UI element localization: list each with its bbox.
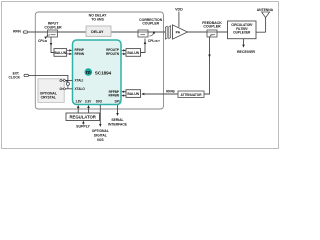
svg-text:COUPLER: COUPLER: [203, 25, 221, 29]
svg-text:RECEIVER: RECEIVER: [237, 50, 255, 54]
op-amp U1 SC1894 chip: [73, 40, 122, 105]
svg-text:XTALO: XTALO: [75, 87, 86, 91]
svg-text:m: m: [86, 70, 91, 76]
wire XTALI: [60, 80, 73, 82]
svg-text:RFFB: RFFB: [166, 90, 175, 94]
svg-text:RFINN: RFINN: [75, 52, 85, 56]
svg-text:SPI: SPI: [115, 99, 120, 103]
svg-text:ANTENNA: ANTENNA: [257, 8, 274, 12]
svg-text:RFFBN: RFFBN: [108, 94, 119, 98]
svg-text:DI/O: DI/O: [96, 99, 103, 103]
circulator/filter/duplexer: [228, 21, 257, 39]
wire XTALO: [60, 88, 73, 90]
wire SPI down: [117, 105, 119, 114]
wire fb balun to chip RFFB pins: [124, 92, 126, 96]
svg-text:ATTENUATOR: ATTENUATOR: [181, 93, 203, 97]
svg-text:PA: PA: [176, 31, 181, 35]
svg-text:DUPLEXER: DUPLEXER: [233, 30, 251, 34]
wire correction injection up from balun: [141, 39, 146, 53]
svg-text:CLOCK: CLOCK: [9, 75, 21, 79]
svg-text:OPTIONAL: OPTIONAL: [92, 129, 109, 133]
delay block: [86, 14, 111, 37]
balun input: [54, 49, 67, 57]
wire feedback tap down: [204, 37, 210, 94]
regulator: [66, 113, 100, 121]
svg-text:CRYSTAL: CRYSTAL: [41, 95, 56, 99]
svg-text:CPLIN: CPLIN: [38, 39, 47, 43]
outer frame: [2, 2, 279, 149]
wire balun to chip RFIN pins: [67, 50, 70, 54]
crystal optional box: [38, 79, 64, 103]
wire chip RFOUT pins to balun: [121, 50, 123, 54]
wire supply into regulator: [82, 122, 84, 125]
input coupler: [44, 22, 62, 40]
balun output: [126, 49, 141, 57]
svg-text:COUPLER: COUPLER: [44, 25, 62, 29]
svg-text:SUPPLY: SUPPLY: [76, 125, 90, 129]
wire DI/O down: [99, 105, 101, 125]
svg-text:RFIN: RFIN: [13, 30, 21, 34]
svg-text:DELAY: DELAY: [91, 30, 104, 34]
svg-text:INTERFACE: INTERFACE: [108, 122, 128, 126]
balun feedback: [126, 90, 141, 98]
svg-text:TO 6NS: TO 6NS: [91, 17, 104, 21]
svg-text:RFOUTN: RFOUTN: [106, 52, 120, 56]
node crystal terminals: [60, 80, 62, 82]
correction coupler: [138, 18, 163, 37]
connector EXT CLOCK plug: [24, 74, 29, 76]
svg-text:SERIAL: SERIAL: [111, 118, 123, 122]
feedback coupler: [202, 21, 222, 37]
system box: [35, 12, 163, 109]
svg-text:XTALI: XTALI: [75, 79, 84, 83]
connector RFIN plug: [23, 31, 28, 33]
svg-text:REGULATOR: REGULATOR: [70, 115, 97, 120]
svg-text:DIGITAL: DIGITAL: [94, 134, 107, 138]
wire ext clock to XTALI: [29, 75, 68, 80]
attenuator: [178, 91, 204, 97]
svg-text:3.3V: 3.3V: [85, 99, 92, 103]
svg-text:I/OS: I/OS: [97, 138, 104, 142]
wire 1.8V supply: [77, 107, 79, 114]
svg-text:BALUN: BALUN: [127, 92, 139, 96]
wire main RF line: [28, 31, 266, 33]
antenna: [257, 8, 274, 32]
wire attenuator to fb balun: [142, 93, 178, 95]
transistor PA (multi-stage amplifier): [165, 25, 187, 39]
svg-text:VDD: VDD: [175, 7, 183, 11]
svg-text:SC1894: SC1894: [95, 70, 112, 75]
svg-text:COUPLER: COUPLER: [142, 22, 159, 26]
logo: [85, 68, 93, 76]
svg-text:BALUN: BALUN: [127, 51, 139, 55]
wire 3.3V supply: [88, 107, 90, 114]
node clock switch: [67, 81, 69, 89]
wire coupled input down to balun: [51, 37, 54, 53]
wire VDD to PA: [178, 12, 180, 28]
svg-text:CPLOUT: CPLOUT: [148, 39, 160, 43]
svg-text:BALUN: BALUN: [54, 51, 66, 55]
svg-text:1.8V: 1.8V: [75, 99, 82, 103]
wire receiver arrow: [243, 39, 245, 46]
